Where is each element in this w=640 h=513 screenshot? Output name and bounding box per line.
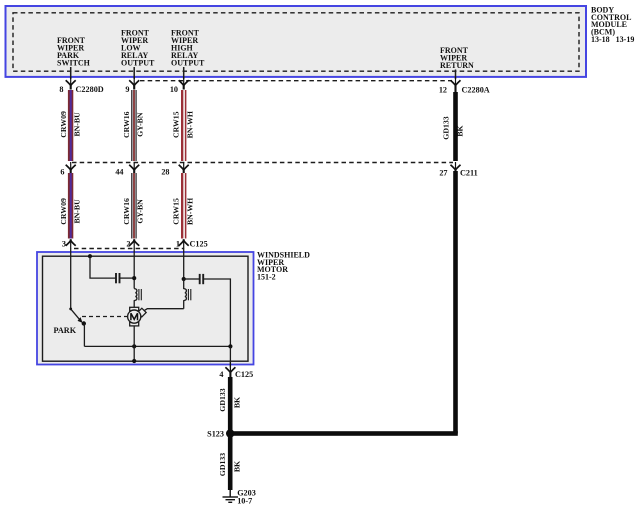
svg-text:1: 1 xyxy=(176,240,180,249)
connector C211 dashed line xyxy=(72,162,453,164)
wire stub from HIGH RELAY label xyxy=(183,67,185,79)
node on pin1 wire xyxy=(182,277,186,281)
connector arrow pin 9 xyxy=(129,77,139,90)
svg-text:12: 12 xyxy=(439,86,447,95)
BCM box inner dashed border xyxy=(13,13,579,71)
svg-text:OUTPUT: OUTPUT xyxy=(121,59,155,68)
svg-text:BN-BU: BN-BU xyxy=(72,199,81,224)
svg-text:CRW09: CRW09 xyxy=(59,198,68,225)
svg-text:GY-BN: GY-BN xyxy=(135,112,144,137)
svg-text:BK: BK xyxy=(233,461,242,472)
svg-text:2: 2 xyxy=(126,240,130,249)
svg-text:8: 8 xyxy=(59,85,63,94)
svg-text:BN-WH: BN-WH xyxy=(185,198,194,225)
svg-text:44: 44 xyxy=(115,168,123,177)
wire stub from PARK SWITCH label xyxy=(70,67,72,79)
node on top border xyxy=(88,254,92,258)
wire coil to motor arm xyxy=(143,309,184,312)
motor box inner black border xyxy=(43,256,249,361)
wire CRW15 BN-WH segment 2 xyxy=(181,173,186,239)
wire pin2 into box xyxy=(133,249,135,289)
svg-text:10-7: 10-7 xyxy=(237,497,252,506)
wire CRW15 BN-WH segment 1 xyxy=(181,90,186,161)
wire stub from RETURN label xyxy=(455,70,457,80)
wire branch from top border down xyxy=(90,256,116,278)
inductor coil (right, high speed winding) xyxy=(184,279,191,309)
svg-text:151-2: 151-2 xyxy=(257,273,276,282)
svg-text:GY-BN: GY-BN xyxy=(135,199,144,224)
BCM box outer blue border xyxy=(6,6,587,77)
connector arrow pin 28 xyxy=(179,162,189,173)
svg-text:BN-BU: BN-BU xyxy=(72,112,81,137)
connector arrow pin 6 xyxy=(66,162,76,173)
svg-text:9: 9 xyxy=(125,85,129,94)
wire splice to return wire xyxy=(230,431,458,436)
svg-text:S123: S123 xyxy=(207,430,224,439)
capacitor C (right) xyxy=(200,274,204,284)
BCM module label text xyxy=(591,5,634,44)
node right branch to bus xyxy=(228,344,232,348)
wire capacitor to pin2 wire xyxy=(120,277,134,279)
node on bottom border xyxy=(132,359,136,363)
label FRONT WIPER RETURN xyxy=(440,46,474,70)
svg-text:C125: C125 xyxy=(190,240,208,249)
svg-text:BN-WH: BN-WH xyxy=(185,111,194,138)
svg-text:CRW16: CRW16 xyxy=(122,198,131,225)
svg-text:6: 6 xyxy=(60,168,64,177)
svg-text:GD133: GD133 xyxy=(218,388,227,411)
svg-text:CRW09: CRW09 xyxy=(59,111,68,138)
park switch blade xyxy=(69,308,86,326)
svg-text:C211: C211 xyxy=(460,169,478,178)
windshield wiper motor box fill xyxy=(37,252,254,365)
connector arrow pin 1 (up) xyxy=(179,239,189,249)
svg-text:10: 10 xyxy=(170,85,178,94)
wire motor down to border xyxy=(133,326,135,361)
svg-text:CRW15: CRW15 xyxy=(172,198,181,225)
label WINDSHIELD WIPER MOTOR 151-2 xyxy=(257,250,310,281)
wire pin3 into box xyxy=(70,249,72,309)
connector arrow pin 2 (up) xyxy=(129,239,139,249)
wire GD133 BK segment 2 (return, down to splice) xyxy=(453,171,458,434)
svg-text:C2280A: C2280A xyxy=(462,86,490,95)
connector arrow pin 8 xyxy=(66,77,76,90)
svg-text:OUTPUT: OUTPUT xyxy=(171,59,205,68)
svg-text:C2280D: C2280D xyxy=(76,85,104,94)
wire CRW09 BN-BU segment 2 xyxy=(68,173,73,239)
wire GD133 BK splice to ground xyxy=(228,434,233,491)
ground G203 xyxy=(223,490,239,502)
svg-text:27: 27 xyxy=(439,169,447,178)
svg-text:BK: BK xyxy=(233,397,242,408)
connector arrow pin 4 xyxy=(225,362,235,377)
svg-text:BK: BK xyxy=(455,125,464,136)
connector arrow pin 27 xyxy=(451,162,461,172)
connector arrow pin 10 xyxy=(179,77,189,90)
connector arrow pin 3 (up) xyxy=(66,239,76,249)
BCM box fill xyxy=(6,6,587,77)
label FRONT WIPER LOW RELAY OUTPUT xyxy=(121,29,155,68)
wire pin1 node to capacitor (right) xyxy=(184,278,200,280)
wire bottom bus xyxy=(84,345,230,347)
wire switch contact down xyxy=(83,324,85,347)
svg-text:3: 3 xyxy=(62,240,66,249)
connector arrow pin 12 xyxy=(451,77,461,92)
wire CRW16 GY-BN segment 1 xyxy=(131,90,137,161)
wire GD133 BK pin4 to splice xyxy=(228,377,233,434)
capacitor C (left) xyxy=(116,273,120,283)
dashed link park switch to motor xyxy=(82,316,127,318)
svg-text:CRW15: CRW15 xyxy=(172,111,181,138)
node on pin2 wire xyxy=(132,276,136,280)
label FRONT WIPER PARK SWITCH xyxy=(57,36,91,68)
connector C125 dashed line xyxy=(74,248,184,250)
inductor coil (left, low speed winding) xyxy=(134,289,141,309)
wire stub from LOW RELAY label xyxy=(133,67,135,79)
svg-text:C125: C125 xyxy=(235,370,253,379)
label FRONT WIPER HIGH RELAY OUTPUT xyxy=(171,29,205,68)
svg-text:PARK: PARK xyxy=(54,326,77,335)
svg-text:GD133: GD133 xyxy=(218,453,227,476)
connector arrow pin 44 xyxy=(129,162,139,173)
wire CRW16 GY-BN segment 2 xyxy=(131,173,137,239)
svg-text:13-18 13-19: 13-18 13-19 xyxy=(591,35,634,44)
svg-text:RETURN: RETURN xyxy=(440,61,474,70)
svg-text:GD133: GD133 xyxy=(441,116,450,139)
wire pin1 into box xyxy=(183,249,185,280)
splice S123 xyxy=(226,429,234,437)
motor M armature xyxy=(128,307,147,326)
svg-text:CRW16: CRW16 xyxy=(122,111,131,138)
wire CRW09 BN-BU segment 1 xyxy=(68,90,73,161)
svg-text:28: 28 xyxy=(161,168,169,177)
svg-text:4: 4 xyxy=(219,370,223,379)
wire GD133 BK segment 1 (return) xyxy=(453,92,458,161)
svg-text:SWITCH: SWITCH xyxy=(57,59,91,68)
node motor to bus xyxy=(132,344,136,348)
connector C2280 dashed line xyxy=(140,80,452,82)
wire pin 4 exit xyxy=(229,346,231,367)
wire capacitor right then down xyxy=(204,279,231,346)
motor box outer blue border xyxy=(37,252,254,365)
